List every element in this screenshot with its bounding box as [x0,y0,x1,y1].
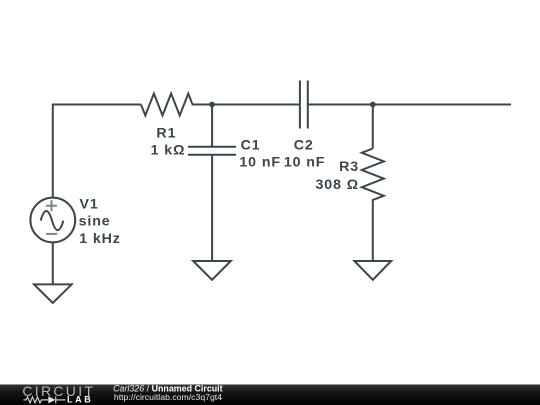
svg-text:1 kΩ: 1 kΩ [151,142,186,158]
svg-text:C2: C2 [294,137,314,153]
svg-text:C1: C1 [241,137,261,153]
svg-text:http://circuitlab.com/c3q7gt4: http://circuitlab.com/c3q7gt4 [114,392,222,402]
svg-text:V1: V1 [80,197,99,213]
svg-text:10 nF: 10 nF [239,154,281,170]
svg-text:1 kHz: 1 kHz [79,231,121,247]
svg-text:R1: R1 [156,125,176,141]
svg-text:sine: sine [79,214,111,230]
svg-text:R3: R3 [339,159,359,175]
svg-text:308 Ω: 308 Ω [316,177,360,193]
svg-text:LAB: LAB [67,395,93,405]
svg-text:10 nF: 10 nF [284,154,326,170]
